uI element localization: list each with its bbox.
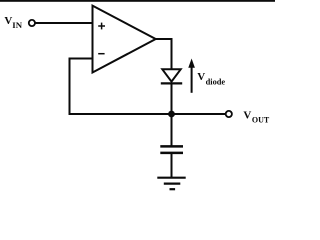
ground [157, 178, 185, 190]
op-amp U1 [93, 6, 156, 73]
diode D1 [161, 69, 182, 83]
terminal Vout [226, 111, 232, 117]
top border bar [0, 0, 275, 2]
svg-text:OUT: OUT [252, 115, 270, 124]
label Vdiode [197, 71, 225, 87]
wire: Vin terminal to op-amp + input [35, 22, 92, 24]
node: solder junction on output rail [168, 111, 175, 118]
wire: junction down to capacitor [171, 114, 173, 146]
wire: bottom output rail [69, 113, 226, 115]
svg-text:V: V [243, 109, 251, 121]
wire: feedback vertical [69, 58, 71, 115]
wire: feedback horizontal from inverting input [69, 58, 92, 60]
svg-text:IN: IN [12, 20, 22, 30]
arrow for Vdiode [188, 59, 195, 93]
label VOUT [243, 109, 270, 124]
wire: diode cathode to bottom rail [171, 84, 173, 115]
wire: op-amp output to diode [156, 39, 172, 70]
svg-text:diode: diode [206, 77, 226, 86]
terminal Vin [29, 20, 35, 26]
label VIN [4, 15, 22, 30]
capacitor C1 [160, 146, 183, 153]
svg-text:V: V [4, 15, 12, 27]
wire: capacitor to ground [171, 153, 173, 178]
svg-text:V: V [197, 71, 205, 83]
